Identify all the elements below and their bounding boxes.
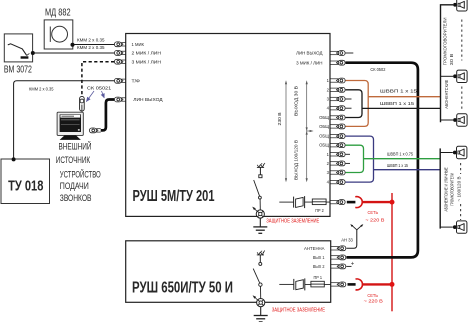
svg-text:230 В: 230 В xyxy=(277,112,282,125)
label SK 05021 with pointer arrows xyxy=(86,86,112,102)
svg-text:ШВВП 1 х 15: ШВВП 1 х 15 xyxy=(387,163,409,168)
loudspeaker 100/120V no.1 xyxy=(453,146,467,158)
bottom box right pin labels xyxy=(304,246,325,269)
svg-text:ВЫХОД 30 В: ВЫХОД 30 В xyxy=(293,86,298,116)
right pin 3 MIK/LIN xyxy=(296,60,345,65)
green wire 100/120V OBShch to pin3 xyxy=(346,145,364,172)
svg-text:ЗАЩИТНОЕ ЗАЗЕМЛЕНИЕ: ЗАЩИТНОЕ ЗАЗЕМЛЕНИЕ xyxy=(266,218,319,224)
label GROMKOGOVORITELI 30 V (vertical) xyxy=(442,18,453,66)
loudspeaker 30V no.2 xyxy=(453,70,467,82)
svg-text:ЛИН ВЫХОД: ЛИН ВЫХОД xyxy=(296,51,322,56)
svg-text:~ 220 В: ~ 220 В xyxy=(364,299,383,304)
svg-text:АН 33: АН 33 xyxy=(341,238,353,243)
dimension line outputs bracket xyxy=(306,80,314,182)
svg-text:ПР 1: ПР 1 xyxy=(314,275,323,280)
svg-text:3 МИК / ЛИН: 3 МИК / ЛИН xyxy=(296,60,322,65)
antenna switch inside bottom box xyxy=(253,250,265,298)
microphone MD 882 xyxy=(44,8,73,50)
svg-text:~ 100/120 В: ~ 100/120 В xyxy=(456,176,461,201)
svg-text:ПОДАЧИ: ПОДАЧИ xyxy=(60,181,89,191)
svg-text:ОБЩ: ОБЩ xyxy=(319,143,329,148)
svg-text:КММ 2 х 0.35: КММ 2 х 0.35 xyxy=(77,38,105,43)
label SET 220V upper (red) xyxy=(365,210,384,223)
svg-text:2 МИК / ЛИН: 2 МИК / ЛИН xyxy=(132,51,162,56)
svg-text:~ 220 В: ~ 220 В xyxy=(365,218,384,223)
cable plug SK 05021 (vertical) xyxy=(80,96,85,111)
svg-text:КММ 2 х 0.35: КММ 2 х 0.35 xyxy=(77,45,105,50)
wire TU018 to T/F pin xyxy=(12,81,115,162)
loudspeaker 30V no.1 xyxy=(453,0,467,11)
svg-text:СК 05021: СК 05021 xyxy=(87,86,112,91)
wire MD882 to pin 1 MIK xyxy=(71,43,115,47)
fuse PR 1 with disconnect xyxy=(279,275,330,291)
orange wire 30V pin1 to OBShch xyxy=(346,81,369,127)
wire VM3072 to pin 2 MIK xyxy=(31,51,114,55)
svg-text:ВЫХ 1: ВЫХ 1 xyxy=(313,255,325,260)
earth terminal of main box xyxy=(252,207,264,218)
left pin stubs of main box xyxy=(115,42,126,102)
orange branch to subscribers bus xyxy=(368,96,440,98)
loudspeaker 100/120V no.2 xyxy=(453,221,467,233)
dimension line 230 V xyxy=(277,80,287,182)
svg-text:СК 0502: СК 0502 xyxy=(370,67,386,72)
svg-text:МД 882: МД 882 xyxy=(45,8,71,19)
svg-text:ШВВП 1 х 15: ШВВП 1 х 15 xyxy=(380,88,418,93)
black branch to subscribers bus xyxy=(362,107,441,109)
right pin number labels xyxy=(319,78,330,185)
label USTROYSTVO PODACHI ZVONKOV xyxy=(60,168,101,203)
svg-text:ЗВОНКОВ: ЗВОНКОВ xyxy=(60,193,92,203)
unconnected leads pins 1,2 lower group xyxy=(346,153,350,155)
svg-text:КММ 2 х 0.35: КММ 2 х 0.35 xyxy=(29,86,54,91)
svg-text:ВМ 3072: ВМ 3072 xyxy=(4,65,32,76)
svg-text:АНТЕННА: АНТЕННА xyxy=(304,246,325,251)
unconnected leads pins 3,4 upper group xyxy=(346,98,352,100)
svg-text:ШВВП 1 х 0.75: ШВВП 1 х 0.75 xyxy=(387,152,414,157)
svg-text:Т/Ф: Т/Ф xyxy=(132,78,141,83)
svg-text:3 МИК / ЛИН: 3 МИК / ЛИН xyxy=(132,59,162,64)
amplifier unit RUSH 5M/TU 201 xyxy=(126,34,330,217)
svg-text:ГРОМКОГОВОРИТЕЛИ: ГРОМКОГОВОРИТЕЛИ xyxy=(449,173,454,206)
speaker bus 30V xyxy=(441,5,454,123)
svg-text:РУШ 650И/ТУ 50 И: РУШ 650И/ТУ 50 И xyxy=(132,280,233,297)
svg-text:+: + xyxy=(351,261,355,267)
thick wire LIN VYHOD to external source xyxy=(101,100,115,131)
svg-text:ТУ 018: ТУ 018 xyxy=(8,177,43,194)
thick wire SK 0502 from 3 MIK/LIN to VYH 1 of bottom box xyxy=(346,63,418,258)
svg-text:АБОНЕНТСКИЕ: АБОНЕНТСКИЕ xyxy=(444,80,449,109)
mains plug lower (red) xyxy=(348,279,395,290)
earth terminal of bottom box xyxy=(253,295,265,307)
svg-text:ВЫХ 2: ВЫХ 2 xyxy=(313,264,325,269)
label ABONENTSKIE I ULICHNYE GROMKOGOVORITELI 100/120V (vertical) xyxy=(444,167,462,211)
svg-text:ЗАЩИТНОЕ ЗАЗЕМЛЕНИЕ: ЗАЩИТНОЕ ЗАЗЕМЛЕНИЕ xyxy=(272,307,326,313)
svg-text:АБОНЕНТСКИЕ И УЛИЧНЫЕ: АБОНЕНТСКИЕ И УЛИЧНЫЕ xyxy=(444,167,449,211)
svg-text:СЕТЬ: СЕТЬ xyxy=(368,210,379,215)
antenna AN 33 xyxy=(341,224,363,248)
svg-text:СЕТЬ: СЕТЬ xyxy=(367,293,378,298)
svg-text:ЛИН ВЫХОД: ЛИН ВЫХОД xyxy=(133,97,162,102)
svg-text:ШВВП 1 х 15: ШВВП 1 х 15 xyxy=(380,101,415,106)
svg-text:ВНЕШНИЙ: ВНЕШНИЙ xyxy=(59,141,92,152)
green branch to street speakers bus xyxy=(364,158,441,160)
continuation dashes subscribers group xyxy=(461,87,463,112)
mains plug upper (red) xyxy=(347,197,395,208)
wire VYH 2 plus lead xyxy=(346,261,355,267)
svg-text:ОБЩ: ОБЩ xyxy=(319,124,329,129)
PR2 pin stub on box edge xyxy=(330,200,345,205)
fuse PR 2 with disconnect xyxy=(279,196,330,213)
label VNESHNIY ISTOCHNIK xyxy=(56,141,92,165)
svg-text:ГРОМКОГОВОРИТЕЛИ: ГРОМКОГОВОРИТЕЛИ xyxy=(442,18,447,66)
antenna switch inside main box xyxy=(254,163,265,210)
loudspeaker 30V no.3 xyxy=(453,114,467,126)
navy wire 100/120V OBShch to pin4 xyxy=(346,136,374,182)
monitor cable plug xyxy=(90,128,101,133)
svg-text:ПР 2: ПР 2 xyxy=(315,208,324,213)
svg-text:ОБЩ: ОБЩ xyxy=(319,134,329,139)
svg-text:ВЫХОД 100/120 В: ВЫХОД 100/120 В xyxy=(293,140,298,180)
external source monitor icon xyxy=(57,112,83,140)
ringing device TU 018 xyxy=(1,159,50,204)
protective ground below main box xyxy=(253,218,267,233)
svg-text:РУШ 5М/ТУ 201: РУШ 5М/ТУ 201 xyxy=(133,188,215,205)
bottom box pin stubs xyxy=(331,246,346,287)
right 12-pin stubs xyxy=(330,78,345,184)
protective ground below bottom box xyxy=(254,307,268,322)
continuation dashes 100/120V group xyxy=(460,163,462,174)
amplifier unit RUSH 650I/TU 50 I xyxy=(126,241,331,302)
svg-text:30 В: 30 В xyxy=(449,53,454,65)
svg-text:ОБЩ: ОБЩ xyxy=(319,115,329,120)
svg-text:ИСТОЧНИК: ИСТОЧНИК xyxy=(56,155,91,165)
continuation dashes 30V group xyxy=(461,20,463,61)
telephone unit VM 3072 xyxy=(4,34,33,76)
svg-text:УСТРОЙСТВО: УСТРОЙСТВО xyxy=(60,168,101,179)
black wire 30V pin2 to OBShch xyxy=(346,90,362,118)
dashed wire pin 3 MIK to plug SK 05021 xyxy=(82,62,114,96)
speaker bus 100/120V xyxy=(440,148,453,228)
svg-text:1 МИК: 1 МИК xyxy=(132,42,145,47)
navy branch to street speakers bus xyxy=(374,169,441,171)
label SET 220V lower (red) xyxy=(364,293,383,304)
right top pin LIN VYHOD with lead xyxy=(296,51,353,56)
mains red feeder line xyxy=(391,193,393,311)
left pin labels xyxy=(132,42,163,102)
